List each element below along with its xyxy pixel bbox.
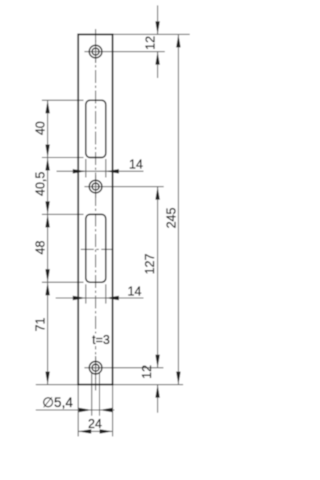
svg-text:12: 12: [143, 36, 157, 50]
svg-text:14: 14: [128, 285, 142, 299]
svg-text:∅5,4: ∅5,4: [42, 395, 73, 410]
svg-text:40: 40: [34, 121, 48, 135]
svg-text:127: 127: [143, 254, 157, 275]
svg-text:48: 48: [34, 241, 48, 255]
svg-text:71: 71: [34, 318, 48, 332]
svg-text:14: 14: [129, 157, 143, 171]
svg-text:24: 24: [88, 417, 102, 431]
svg-text:40,5: 40,5: [34, 172, 48, 196]
svg-text:t=3: t=3: [92, 333, 110, 347]
svg-text:245: 245: [164, 208, 178, 229]
svg-text:12: 12: [140, 365, 154, 379]
